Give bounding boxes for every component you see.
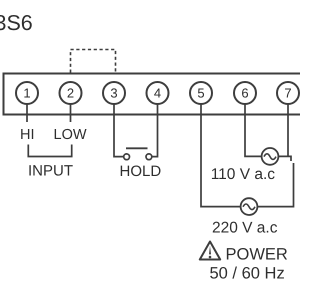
svg-text:220 V a.c: 220 V a.c xyxy=(212,220,278,237)
svg-text:2: 2 xyxy=(67,86,74,101)
svg-text:50 / 60 Hz: 50 / 60 Hz xyxy=(210,265,285,283)
svg-text:POWER: POWER xyxy=(226,246,288,264)
svg-text:5: 5 xyxy=(197,86,204,101)
svg-text:INPUT: INPUT xyxy=(28,163,73,180)
svg-text:LOW: LOW xyxy=(54,127,87,143)
svg-text:HI: HI xyxy=(20,127,35,143)
svg-text:3S6: 3S6 xyxy=(0,11,33,35)
svg-text:HOLD: HOLD xyxy=(120,163,162,180)
svg-text:7: 7 xyxy=(284,86,291,101)
svg-text:110 V a.c: 110 V a.c xyxy=(211,166,276,183)
svg-text:3: 3 xyxy=(110,86,117,101)
svg-text:4: 4 xyxy=(154,86,161,101)
svg-text:6: 6 xyxy=(241,86,248,101)
svg-text:1: 1 xyxy=(23,86,30,101)
